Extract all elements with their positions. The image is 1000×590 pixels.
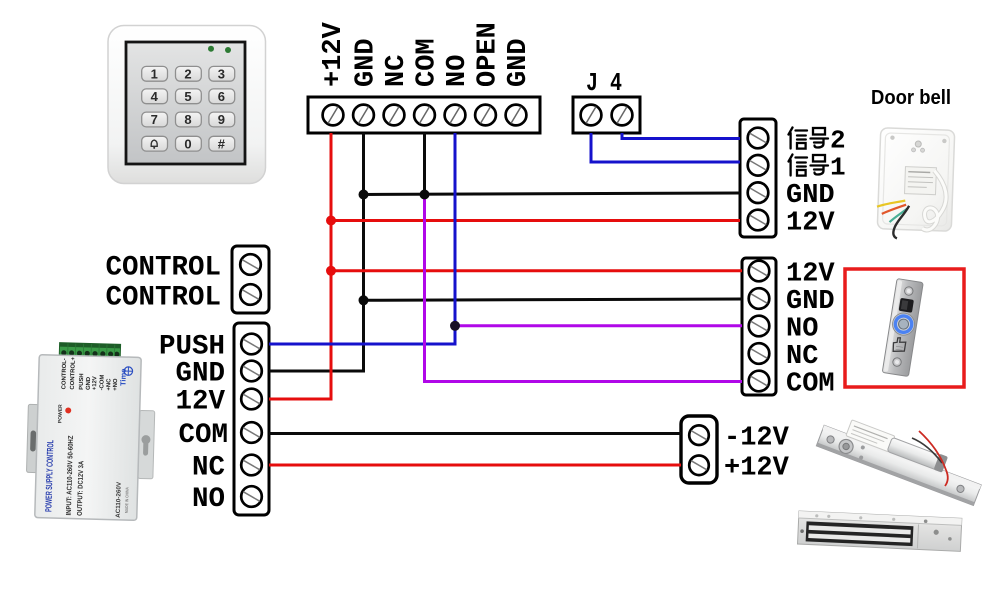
- CONTROL terminal block: [105, 246, 269, 314]
- svg-text:CONTROL+: CONTROL+: [70, 356, 77, 389]
- screw terminals of exit-button block: [749, 261, 770, 392]
- door bell unit: [876, 128, 955, 241]
- svg-text:CONTROL-: CONTROL-: [61, 358, 68, 389]
- wire black: GND branch to bell block GND: [364, 193, 741, 195]
- svg-text:COM: COM: [786, 370, 835, 400]
- right upper block labels: [786, 126, 846, 239]
- svg-text:NC: NC: [382, 55, 412, 87]
- svg-text:4: 4: [151, 89, 159, 104]
- wire red: keypad +12V to push-block 12V: [269, 133, 331, 399]
- junction NO node: [450, 321, 460, 331]
- svg-text:GND: GND: [352, 38, 382, 87]
- svg-text:2: 2: [184, 66, 191, 81]
- keypad reader: [108, 26, 266, 184]
- svg-text:PUSH: PUSH: [79, 373, 85, 390]
- svg-text:3: 3: [218, 66, 225, 81]
- terminal strip top labels: [319, 21, 534, 87]
- svg-text:POWER SUPPLY CONTROL: POWER SUPPLY CONTROL: [43, 440, 55, 513]
- junction black COM node: [420, 190, 430, 200]
- svg-text:POWER: POWER: [57, 404, 64, 423]
- junction black GND node B: [359, 295, 369, 305]
- svg-text:#: #: [218, 136, 226, 151]
- wire blue: J4 pin1 to signal1: [591, 133, 740, 162]
- svg-text:NO: NO: [786, 315, 818, 345]
- svg-text:NC: NC: [192, 453, 225, 484]
- wire red: +12V branch to button block 12V: [331, 269, 742, 272]
- power minus plus terminal block: [681, 416, 790, 484]
- wire purple: NO node to button block NO: [455, 324, 742, 327]
- svg-text:MADE IN CHINA: MADE IN CHINA: [124, 487, 130, 513]
- svg-text:12V: 12V: [786, 260, 835, 290]
- svg-text:1: 1: [830, 153, 846, 183]
- svg-text:7: 7: [151, 112, 158, 127]
- svg-text:6: 6: [218, 89, 225, 104]
- wire red: +12V branch to bell block 12V: [331, 219, 740, 222]
- svg-text:COM: COM: [178, 420, 228, 451]
- svg-text:-COM: -COM: [99, 375, 105, 391]
- power supply unit: [25, 342, 156, 521]
- svg-text:+12V: +12V: [319, 21, 349, 87]
- wire blue: keypad NO to push-block PUSH: [269, 133, 455, 344]
- exit button plate: [882, 279, 923, 377]
- connector J4: [573, 68, 640, 133]
- wire red: push-block NC to +12V: [269, 464, 681, 467]
- svg-text:NO: NO: [192, 484, 225, 515]
- svg-text:GND: GND: [786, 287, 835, 317]
- svg-text:+12V: +12V: [724, 454, 790, 484]
- junction red +12V node A: [326, 216, 336, 226]
- screw terminals of connector J4: [581, 105, 633, 126]
- screw terminals of power block: [689, 425, 709, 475]
- svg-text:1: 1: [151, 66, 158, 81]
- wire black: keypad COM drop: [423, 133, 426, 195]
- svg-text:5: 5: [184, 89, 191, 104]
- svg-text:+NC: +NC: [106, 378, 112, 391]
- magnetic lock: [798, 511, 962, 551]
- terminal strip top: [308, 97, 540, 133]
- svg-text:GND: GND: [175, 359, 225, 390]
- svg-text:8: 8: [184, 112, 191, 127]
- svg-text:NC: NC: [786, 342, 818, 372]
- svg-text:GND: GND: [504, 38, 534, 87]
- svg-text:2: 2: [830, 126, 846, 156]
- svg-text:9: 9: [218, 112, 225, 127]
- screw terminals of keypad strip (+12V GND NC COM NO OPEN GND): [323, 105, 527, 126]
- svg-text:12V: 12V: [175, 387, 225, 418]
- electric bolt lock: [816, 411, 986, 505]
- wire black: GND branch to button block GND: [364, 299, 743, 300]
- keypad keys: [142, 66, 235, 151]
- svg-text:GND: GND: [786, 181, 835, 211]
- wire purple: COM node to button block COM: [425, 195, 743, 382]
- svg-text:J 4: J 4: [586, 68, 622, 98]
- terminal block right mid: [742, 258, 776, 395]
- svg-text:-12V: -12V: [724, 424, 790, 454]
- svg-text:COM: COM: [413, 38, 443, 87]
- right mid block labels: [786, 260, 835, 400]
- svg-text:Door bell: Door bell: [871, 87, 951, 109]
- svg-text:CONTROL: CONTROL: [105, 253, 221, 284]
- screw terminals of CONTROL block: [240, 254, 261, 305]
- wire black: push-block COM to -12V: [269, 432, 681, 435]
- svg-text:NO: NO: [443, 55, 473, 87]
- exit button red frame: [845, 269, 964, 387]
- PUSH terminal block: [159, 323, 269, 515]
- screw terminals of PUSH block: [241, 334, 262, 507]
- svg-text:CONTROL: CONTROL: [105, 283, 221, 314]
- terminal block right upper: [740, 119, 776, 237]
- svg-text:+12V: +12V: [92, 376, 98, 390]
- svg-text:AC110-260V: AC110-260V: [115, 481, 123, 518]
- svg-text:OPEN: OPEN: [474, 22, 504, 87]
- svg-text:12V: 12V: [786, 209, 835, 239]
- junction black GND node A: [359, 190, 369, 200]
- screw terminals of door-bell block: [748, 128, 769, 231]
- junction red +12V node B: [326, 266, 336, 276]
- wire blue: J4 pin2 to signal2: [622, 133, 740, 139]
- svg-text:0: 0: [184, 136, 191, 151]
- wire GND black: keypad GND to push-block GND: [269, 133, 364, 371]
